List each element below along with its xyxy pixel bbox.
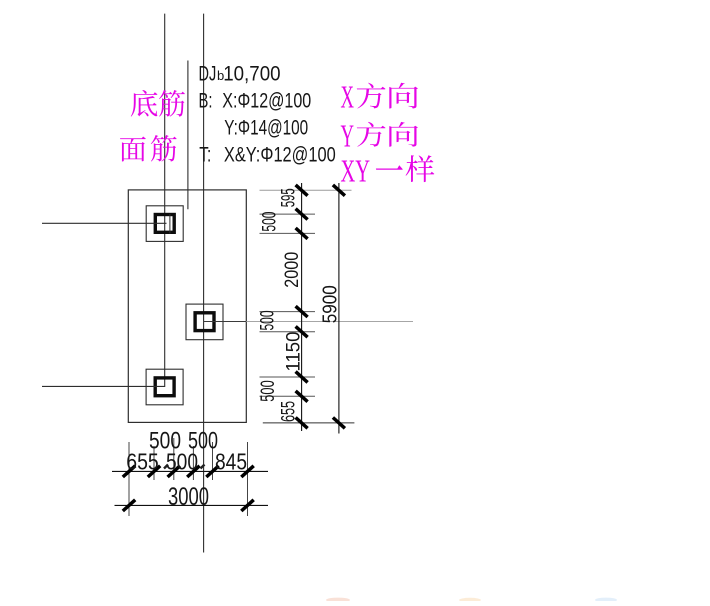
faint toolbar smudge 1 xyxy=(326,598,350,603)
svg-text:845: 845 xyxy=(215,449,247,475)
column pedestal outline C1 xyxy=(146,206,183,242)
extension line t2 at y=233.4 xyxy=(260,232,316,234)
extension line t6 at y=396.3 xyxy=(260,395,316,397)
column section (thick) C2 xyxy=(195,313,214,331)
tick on inner chain t3 xyxy=(296,306,308,317)
tick on outer chain bottom xyxy=(333,418,345,429)
dimension line: inner vertical chain xyxy=(301,183,303,431)
svg-text:DJ: DJ xyxy=(199,61,217,85)
svg-text:X&Y:Φ12@100: X&Y:Φ12@100 xyxy=(224,143,336,167)
tick on bottom chain at x=247.5 xyxy=(241,466,253,477)
extension line at x=173.8 xyxy=(173,438,175,480)
label 底筋 (bottom rebar) xyxy=(131,90,158,117)
tick on bottom chain at x=129.0 xyxy=(123,466,135,477)
wire: short vertical leader line from annotation text down into slab xyxy=(187,61,189,210)
extension line at x=193.4 xyxy=(192,446,194,480)
svg-text:5900: 5900 xyxy=(320,285,342,323)
faint toolbar smudge 3 xyxy=(595,598,617,603)
extension line at x=247.5 xyxy=(247,442,249,516)
tick on inner chain t4 xyxy=(296,326,308,337)
extension line at x=129.0 xyxy=(128,442,130,516)
wire: vertical axis line through left columns xyxy=(164,14,166,387)
extension line t5 at y=377.0 xyxy=(260,376,316,378)
svg-text:1150: 1150 xyxy=(284,332,305,372)
extension line t7 at y=422.9 xyxy=(263,422,355,424)
dimension line: outer vertical chain (5900) xyxy=(338,183,340,434)
svg-text:B:: B: xyxy=(199,88,213,112)
dimension line: bottom total chain (3000) xyxy=(115,504,269,506)
column pedestal outline C3 xyxy=(146,369,183,405)
svg-text:2000: 2000 xyxy=(282,252,303,288)
tick on inner chain t0 xyxy=(296,185,308,196)
extension line t3 at y=311.6 xyxy=(260,311,316,313)
wire: leader from column C2 continued (gray) xyxy=(246,321,413,323)
svg-text:655: 655 xyxy=(279,401,300,422)
extension line t1 at y=214.1 xyxy=(260,213,316,215)
column pedestal outline C2 xyxy=(186,304,223,340)
tick on bottom chain at x=154.0 xyxy=(148,466,160,477)
column section (thick) C3 xyxy=(155,378,174,396)
svg-text:XY: XY xyxy=(341,153,371,189)
wire: leader from label 底筋 to column C1 xyxy=(42,222,167,224)
tick on inner chain t6 xyxy=(296,391,308,402)
extension line t0 at y=190.3 xyxy=(260,189,352,191)
svg-text:3000: 3000 xyxy=(168,483,209,511)
wire: leader from column C2 to the right (dark inside slab) xyxy=(204,321,247,323)
column section (thick) C1 xyxy=(155,215,174,233)
tick on inner chain t7 xyxy=(296,418,308,429)
tick on bottom chain at x=212.5 xyxy=(206,466,218,477)
svg-text:X:Φ12@100: X:Φ12@100 xyxy=(222,88,311,112)
label 面筋 (top rebar) xyxy=(120,136,146,161)
tick on inner chain t1 xyxy=(296,209,308,220)
speck after 655 label xyxy=(164,465,168,469)
extension line t4 at y=331.8 xyxy=(260,331,316,333)
faint toolbar smudge 2 xyxy=(459,598,481,602)
dimension line: bottom chain (655/500/500/500/845) xyxy=(112,470,268,472)
tick on inner chain t5 xyxy=(296,372,308,383)
svg-text:T:: T: xyxy=(199,143,211,167)
tick on bottom chain at x=193.4 xyxy=(187,466,199,477)
svg-text:500: 500 xyxy=(258,380,279,402)
wire: leader from label 面筋 to column C3 xyxy=(42,385,165,387)
foundation slab outline DJ xyxy=(128,190,246,423)
svg-text:595: 595 xyxy=(279,188,300,207)
speck after 500 label xyxy=(201,465,205,469)
svg-text:500: 500 xyxy=(260,212,281,232)
tick on total chain left xyxy=(123,500,135,511)
svg-text:Y:Φ14@100: Y:Φ14@100 xyxy=(224,115,308,139)
svg-text:500: 500 xyxy=(258,311,279,331)
svg-text:500: 500 xyxy=(166,449,198,475)
svg-text:10,700: 10,700 xyxy=(223,61,280,85)
svg-text:Y: Y xyxy=(341,118,355,154)
extension line at x=212.5 xyxy=(212,442,214,480)
extension line at x=154.0 xyxy=(153,446,155,480)
tick on inner chain t2 xyxy=(296,228,308,239)
wire: short bar line inside column C1 xyxy=(169,214,171,234)
svg-text:655: 655 xyxy=(126,449,159,475)
wire: vertical axis line through middle column (long, to bottom) xyxy=(203,14,205,553)
svg-text:X: X xyxy=(341,79,355,115)
tick on total chain right xyxy=(241,500,253,511)
tick on outer chain top xyxy=(333,185,345,196)
tick on bottom chain at x=173.8 xyxy=(168,466,180,477)
